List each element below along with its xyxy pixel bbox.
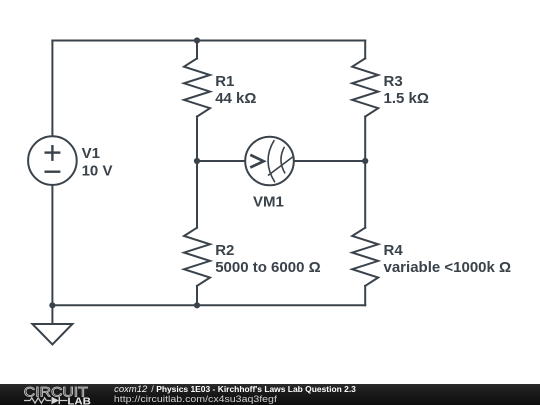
svg-text:R2: R2 [215, 242, 234, 259]
svg-text:R4: R4 [384, 242, 404, 259]
svg-text:44 kΩ: 44 kΩ [215, 90, 256, 107]
wire right branch between R3 and R4 [364, 117, 366, 228]
wire bottom rail [52, 304, 365, 306]
svg-text:LAB: LAB [67, 397, 91, 405]
voltmeter VM1 [245, 137, 294, 186]
node at top rail / R1 branch [194, 37, 200, 43]
svg-text:V1: V1 [82, 145, 100, 162]
svg-text:R3: R3 [384, 73, 403, 90]
wire right branch bottom lead [364, 286, 366, 305]
wire voltmeter left [197, 160, 245, 162]
wire right branch top lead [364, 41, 366, 59]
logo wire to LAB [59, 400, 67, 402]
resistor R1 [184, 58, 210, 116]
svg-text:http://circuitlab.com/cx4su3aq: http://circuitlab.com/cx4su3aq3fegf [114, 394, 277, 405]
svg-text:coxm12: coxm12 [114, 384, 147, 394]
wire left rail lower (V1 to bottom corner) [51, 185, 53, 305]
wire middle branch bottom lead [196, 286, 198, 305]
node at middle branch / voltmeter tap [194, 158, 200, 164]
svg-text:Physics 1E03 - Kirchhoff's Law: Physics 1E03 - Kirchhoff's Laws Lab Ques… [156, 384, 356, 394]
ground [32, 324, 72, 345]
logo resistor zigzag [24, 398, 51, 403]
resistor R2 [184, 228, 210, 286]
wire top rail [52, 40, 365, 42]
footer bar [0, 384, 540, 405]
node at bottom rail / R2 branch [194, 302, 200, 308]
wire voltmeter right [294, 160, 365, 162]
node at right branch / voltmeter tap [362, 158, 368, 164]
wire ground stem [51, 305, 53, 324]
wire middle branch top lead [196, 41, 198, 59]
svg-text:5000 to 6000 Ω: 5000 to 6000 Ω [215, 259, 320, 276]
voltage source V1 [28, 136, 77, 185]
wire left rail upper (top corner to V1) [51, 41, 53, 137]
svg-text:1.5 kΩ: 1.5 kΩ [384, 90, 429, 107]
node at bottom-left / ground [49, 302, 55, 308]
svg-text:VM1: VM1 [253, 193, 284, 210]
resistor R4 [352, 228, 378, 286]
wire middle branch between R1 and R2 [196, 117, 198, 228]
svg-text:R1: R1 [215, 73, 234, 90]
resistor R3 [352, 58, 378, 116]
svg-text:10 V: 10 V [82, 163, 113, 180]
logo diode [52, 397, 60, 404]
svg-text:variable <1000k Ω: variable <1000k Ω [384, 259, 512, 276]
